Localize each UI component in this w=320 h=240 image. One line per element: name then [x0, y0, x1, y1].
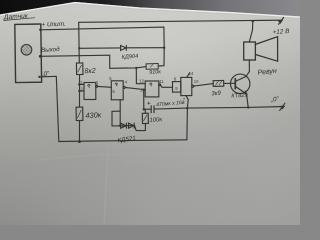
- wire gate2 out to gate3 pin13: [125, 88, 145, 90]
- wire diode branch: [79, 47, 164, 50]
- gate DD1.4 input block: [173, 82, 181, 93]
- resistor R 910k: [146, 64, 158, 70]
- end tick +12V: [278, 18, 284, 25]
- label sensor 0: [40, 70, 51, 78]
- wire zero rail upper: [154, 107, 284, 110]
- node 430k rail junction: [78, 140, 81, 143]
- label +Upit: [41, 21, 65, 29]
- label KD521: [117, 135, 136, 144]
- capacitor C 470mk plates: [148, 102, 154, 113]
- wire gate1 pin1 stub: [79, 83, 84, 85]
- resistor R 100k: [142, 113, 148, 123]
- wire gate3 out to gate4: [161, 85, 173, 87]
- label 430k: [85, 110, 102, 120]
- node Vyhod terminal: [39, 55, 42, 58]
- diode VD KD521 a: [121, 123, 127, 128]
- svg-text:10: 10: [194, 79, 199, 84]
- node diode branch tap: [78, 47, 80, 49]
- node emitter rail junction: [247, 106, 249, 108]
- node sensor +U terminal: [39, 29, 41, 31]
- svg-text:Выход: Выход: [41, 46, 60, 54]
- label 910k: [149, 69, 161, 76]
- label 100k: [149, 117, 163, 124]
- sensor box (Датчик): [15, 24, 42, 83]
- gate DD1.2: [111, 81, 125, 100]
- svg-text:13: 13: [140, 87, 145, 92]
- label Datchik: [3, 13, 29, 22]
- svg-text:КД904: КД904: [121, 54, 138, 61]
- node gate1 pin2 junction: [78, 90, 80, 92]
- node diode junction: [163, 47, 165, 49]
- underline Datchik: [4, 18, 36, 21]
- wire gate4 out to R 3k9: [194, 84, 213, 87]
- wire sensor zero down: [39, 76, 59, 141]
- label +12V: [272, 28, 290, 36]
- pin7 arrow and ground drop: [186, 96, 188, 140]
- sensor window circle: [21, 45, 32, 56]
- label 8k2: [84, 68, 96, 76]
- wire speaker to +12 rail: [249, 21, 253, 42]
- diode VD KD521 b: [129, 123, 135, 128]
- svg-text:+ Uпит.: + Uпит.: [41, 21, 65, 29]
- node cap tap on pin13 wire: [143, 89, 145, 91]
- svg-text:430к: 430к: [85, 110, 102, 120]
- gate DD1.4 body: [181, 77, 194, 95]
- svg-text:14: 14: [189, 71, 194, 76]
- wire 3k9 to base: [224, 82, 236, 84]
- gate DD1.1: [84, 83, 98, 100]
- node diode line junction: [119, 125, 121, 127]
- resistor R 3k9: [213, 80, 224, 86]
- speaker Revun: [244, 37, 278, 62]
- end tick zero rail: [280, 103, 285, 110]
- diode VD KD904: [121, 45, 127, 50]
- wire gate2 bottom drop: [119, 100, 121, 126]
- wire cap node vertical: [143, 90, 145, 110]
- dark table band along top edge of photo: [0, 0, 300, 17]
- label 470mk: [156, 100, 185, 108]
- svg-text:8к2: 8к2: [84, 68, 96, 76]
- gate DD1.3: [145, 81, 160, 97]
- wire gate1 pin2 stub: [79, 90, 84, 92]
- node 910k left junction: [135, 67, 137, 69]
- wire collector to speaker: [248, 60, 250, 72]
- svg-text:11: 11: [159, 79, 164, 84]
- node cap left: [143, 108, 145, 110]
- label Vyhod: [41, 46, 60, 54]
- wire sensor +U supply: [40, 27, 164, 48]
- wire to gate3 pin12: [136, 68, 145, 84]
- svg-text:100к: 100к: [149, 117, 163, 124]
- wire +12V top rail: [79, 20, 283, 22]
- node sensor zero terminal: [38, 76, 40, 78]
- wire Vyhod (sensor output): [40, 55, 146, 68]
- label KD904: [121, 54, 138, 61]
- svg-text:3к9: 3к9: [211, 91, 222, 98]
- node gate1 pin1 junction: [78, 83, 80, 85]
- pin14 arrow: [187, 73, 190, 77]
- svg-text:КТ829: КТ829: [231, 93, 248, 100]
- label KT829: [231, 93, 248, 100]
- pin number labels: [80, 71, 199, 102]
- svg-text:12: 12: [139, 78, 144, 83]
- svg-text:+12 В: +12 В: [272, 28, 290, 36]
- svg-text:910к: 910к: [149, 69, 161, 76]
- node pin7 rail junction: [186, 107, 188, 109]
- wire gate1 out to gate2: [98, 85, 112, 88]
- wire diode pair line: [112, 125, 135, 127]
- wire 910k right to +U node: [158, 48, 164, 66]
- wire 100k bottom hook: [135, 124, 146, 131]
- resistor R 430k: [76, 107, 83, 121]
- wire cap left: [144, 108, 151, 110]
- wire zero rail lower: [59, 140, 187, 142]
- resistor R 8k2: [76, 63, 83, 75]
- transistor Q KT829: [231, 72, 250, 108]
- label zero right: [270, 95, 280, 103]
- wire feedback hook: [112, 111, 120, 126]
- label Revun: [257, 68, 277, 77]
- label 3k9: [211, 91, 222, 98]
- node speaker rail junction: [252, 20, 254, 22]
- bright paper edge highlight: [0, 3, 300, 18]
- wire 100k top stub: [144, 109, 146, 113]
- wire left vertical (+12 to divider chain): [78, 22, 81, 142]
